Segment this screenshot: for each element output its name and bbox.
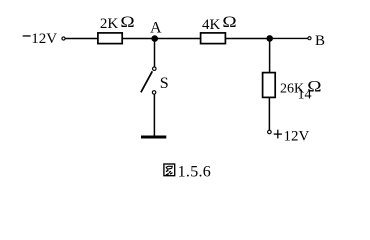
wire: R3 to +12V terminal [268, 98, 270, 130]
wire: node A to R2 [155, 38, 201, 40]
resistor R3 value 26KΩ [280, 77, 321, 96]
wire: switch to ground [153, 94, 155, 136]
terminal (+12V) [268, 130, 272, 134]
caption 图 glyph (drawn) [164, 164, 175, 176]
switch S top contact [153, 67, 157, 71]
resistor R3 26KΩ body (vertical) [263, 73, 276, 98]
wire: junction to terminal B [270, 37, 308, 39]
wire: node A down to switch [154, 39, 156, 67]
resistor R1 value 2KΩ [100, 13, 135, 33]
svg-text:S: S [160, 75, 169, 92]
source -12V label [23, 31, 58, 47]
wire: R1 to node A [123, 38, 154, 40]
svg-text:1.5.6: 1.5.6 [178, 163, 212, 180]
svg-text:A: A [150, 19, 162, 36]
terminal B circle [308, 37, 311, 40]
wire: -12V terminal to R1 [65, 38, 98, 40]
switch S bottom contact [152, 91, 156, 95]
node A junction dot [151, 35, 158, 42]
wire: junction down to R3 [269, 38, 271, 72]
svg-text:2K: 2K [100, 16, 119, 32]
terminal (left, -12V) [62, 37, 65, 40]
resistor R2 4KΩ body [201, 33, 226, 44]
svg-text:Ω: Ω [120, 13, 134, 31]
svg-text:B: B [315, 33, 325, 49]
svg-text:14: 14 [298, 88, 312, 103]
svg-text:12V: 12V [31, 31, 57, 47]
wire: R2 to junction [226, 38, 270, 40]
svg-text:12V: 12V [284, 128, 310, 144]
ground [141, 136, 166, 139]
resistor R1 2KΩ body [98, 33, 122, 44]
resistor R2 value 4KΩ [202, 13, 237, 33]
switch S blade [141, 71, 152, 92]
source +12V label [274, 128, 310, 144]
svg-text:Ω: Ω [222, 13, 236, 31]
svg-text:4K: 4K [202, 17, 221, 33]
junction node dot [266, 35, 273, 42]
